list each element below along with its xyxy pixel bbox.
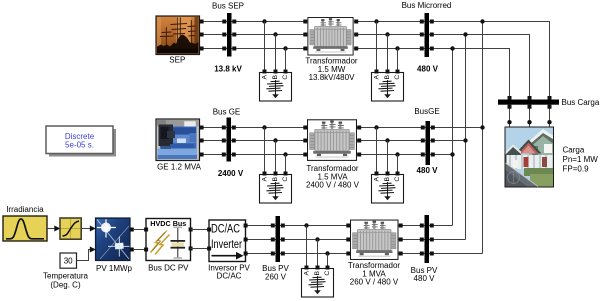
transformer Transformador 3 <box>346 220 402 286</box>
junction dots row2 RLC load Z4 <box>374 125 399 156</box>
bus Bus PV 480 <box>411 215 438 283</box>
wires row1: Bus Microrred to Bus Carga feeders <box>429 22 550 99</box>
svg-text:(Deg. C): (Deg. C) <box>50 281 81 290</box>
wire PV to HVDC bus (2 lines) <box>134 230 146 250</box>
svg-text:Pn=1 MW: Pn=1 MW <box>563 155 599 164</box>
svg-text:30: 30 <box>64 257 73 266</box>
svg-text:PV 1MWp: PV 1MWp <box>96 264 133 273</box>
wires row3: Bus PV 260 to Transformador 3 <box>280 226 350 254</box>
svg-text:FP=0.9: FP=0.9 <box>563 165 590 174</box>
junction dots row3 RLC load Z5 <box>304 223 329 255</box>
svg-text:2400 V / 480 V: 2400 V / 480 V <box>306 181 360 190</box>
svg-text:Bus Carga: Bus Carga <box>562 98 600 107</box>
bus Bus Carga (horizontal) <box>498 96 600 109</box>
RLC load Z1 (Bus SEP) <box>260 70 292 102</box>
svg-text:480 V: 480 V <box>417 65 439 74</box>
block SEP (utility source image) <box>156 16 204 64</box>
svg-text:GE 1.2 MVA: GE 1.2 MVA <box>157 162 202 171</box>
block PV 1MWp (solar panel image) <box>96 218 134 273</box>
wire HVDC to Inverter (2 lines) <box>191 230 210 249</box>
wires row1: Transformador 1 to Bus Microrred <box>354 22 425 49</box>
svg-text:Temperatura: Temperatura <box>43 271 88 280</box>
constant block 30 <box>60 253 77 268</box>
svg-text:Irradiancia: Irradiancia <box>6 205 44 214</box>
wire Irradiancia to Lookup <box>47 226 60 232</box>
junction dots row1 RLC load Z2 <box>374 19 399 50</box>
RLC load Z3 (Bus GE) <box>260 172 292 204</box>
junction dots row1 RLC load Z1 <box>262 19 287 50</box>
lookup table block T(u) <box>60 218 81 239</box>
bus Bus Microrred <box>402 1 452 57</box>
junction dots row2 RLC load Z3 <box>262 125 287 156</box>
junction dots phase link verticals <box>450 19 484 156</box>
svg-text:DC/AC: DC/AC <box>211 224 240 236</box>
svg-text:13.8kV/480V: 13.8kV/480V <box>309 73 355 82</box>
svg-text:2400 V: 2400 V <box>218 169 244 178</box>
svg-text:Bus GE: Bus GE <box>213 107 241 116</box>
svg-text:260 V / 480 V: 260 V / 480 V <box>350 278 399 287</box>
wires row3: Bus PV 480 to phase link verticals <box>429 226 483 254</box>
transformer Transformador 2 <box>303 120 361 190</box>
wires row3: Transformador 3 to Bus PV 480 <box>399 226 425 254</box>
wire phase link verticals <box>453 22 483 254</box>
svg-text:13.8 kV: 13.8 kV <box>214 64 242 73</box>
block GE (diesel genset image) <box>156 119 204 171</box>
svg-text:480 V: 480 V <box>414 274 436 283</box>
block HVDC Bus (Bus DC PV) <box>144 219 193 273</box>
wires row1: Bus SEP to Transformador 1 <box>232 22 308 49</box>
wire stubs RLC load Z5 <box>307 226 328 269</box>
wire 30 to PV input 2 <box>77 247 96 261</box>
wire stubs RLC load Z1 <box>265 22 286 73</box>
wires row2: Transformador 2 to BusGE <box>357 128 426 155</box>
wire stubs RLC load Z2 <box>377 22 398 73</box>
svg-text:Bus DC PV: Bus DC PV <box>148 264 189 273</box>
source block Irradiancia (gaussian signal) <box>3 216 47 241</box>
RLC load Z4 (BusGE 480) <box>372 172 404 204</box>
block DC/AC Inverter <box>207 220 250 280</box>
wire Lookup to PV input 1 <box>81 226 96 232</box>
svg-text:5e-05 s.: 5e-05 s. <box>65 141 94 150</box>
wires row2: BusGE to phase link verticals <box>430 128 483 155</box>
svg-text:Bus SEP: Bus SEP <box>212 1 244 10</box>
svg-text:480 V: 480 V <box>417 166 439 175</box>
bus Bus SEP <box>212 1 244 56</box>
svg-text:DC/AC: DC/AC <box>217 271 242 280</box>
svg-text:Inverter: Inverter <box>211 239 242 251</box>
svg-text:BusGE: BusGE <box>414 107 439 116</box>
svg-text:SEP: SEP <box>169 55 185 64</box>
wires: Bus Carga to Carga block <box>510 105 550 128</box>
bus Bus GE <box>213 107 241 161</box>
bus Bus PV 260 <box>262 216 289 282</box>
RLC load Z2 (Bus Microrred) <box>372 70 404 102</box>
transformer Transformador 1 <box>303 17 358 82</box>
wires row2: GE to Bus GE <box>200 128 227 155</box>
block Carga (houses image) <box>505 120 598 187</box>
svg-text:Carga: Carga <box>563 145 585 154</box>
block Discrete powergui <box>46 126 116 157</box>
svg-text:Discrete: Discrete <box>65 132 95 141</box>
wires row2: Bus GE to Transformador 2 <box>231 128 307 155</box>
RLC load Z5 (Bus PV) <box>302 266 334 298</box>
svg-text:260 V: 260 V <box>265 273 287 282</box>
wire stubs RLC load Z3 <box>265 128 286 175</box>
bus BusGE 480 <box>414 107 439 165</box>
wires row1: SEP to Bus SEP <box>200 22 228 49</box>
wires row3: Inverter to Bus PV 260 <box>246 226 276 254</box>
svg-text:Bus Microrred: Bus Microrred <box>402 1 452 10</box>
label Temperatura (Deg. C) <box>43 271 88 289</box>
wire stubs RLC load Z4 <box>377 128 398 175</box>
